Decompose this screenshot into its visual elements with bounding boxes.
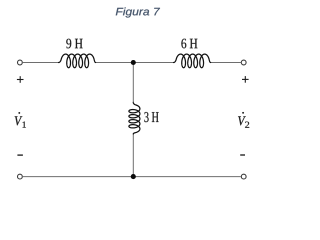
polarity minus sign left bbox=[17, 154, 23, 156]
label V2 phasor: subscript 2 bbox=[245, 122, 249, 128]
wire: node A to L2 bbox=[133, 62, 173, 64]
node A junction dot bbox=[131, 60, 136, 65]
polarity plus sign left bbox=[17, 76, 24, 83]
terminal bottom-right (open circle) bbox=[241, 174, 246, 179]
wire: L1 to node A bbox=[96, 62, 134, 64]
terminal top-right (open circle) bbox=[241, 60, 246, 65]
inductor L3 value label "3 H" bbox=[144, 112, 158, 122]
terminal bottom-left (open circle) bbox=[18, 174, 23, 179]
wire: L2 to top-right terminal bbox=[211, 62, 242, 64]
wire: bottom rail terminal to terminal bbox=[23, 176, 241, 178]
inductor L2 coil 6 H bbox=[174, 54, 211, 68]
label V2 phasor: dot above bbox=[242, 112, 244, 114]
inductor L3 coil 3 H bbox=[129, 102, 140, 134]
inductor L1 coil 9 H bbox=[59, 54, 96, 68]
wire: L3 down to node B bbox=[132, 134, 134, 177]
label V2 phasor: italic V bbox=[238, 116, 246, 125]
inductor L1 value label "9 H" bbox=[66, 39, 82, 49]
polarity minus sign right bbox=[240, 154, 245, 156]
polarity plus sign right bbox=[242, 76, 249, 83]
caption "Figura 7" bbox=[116, 7, 160, 17]
wire: top-left terminal to L1 bbox=[23, 62, 59, 64]
label V1 phasor: subscript 1 bbox=[23, 122, 26, 128]
inductor L2 value label "6 H" bbox=[181, 39, 197, 49]
node B junction dot bbox=[131, 174, 136, 179]
label V1 phasor: dot above bbox=[18, 112, 20, 114]
terminal top-left (open circle) bbox=[18, 60, 23, 65]
wire: node A down to L3 bbox=[132, 63, 134, 103]
label V1 phasor: italic V bbox=[15, 116, 23, 125]
